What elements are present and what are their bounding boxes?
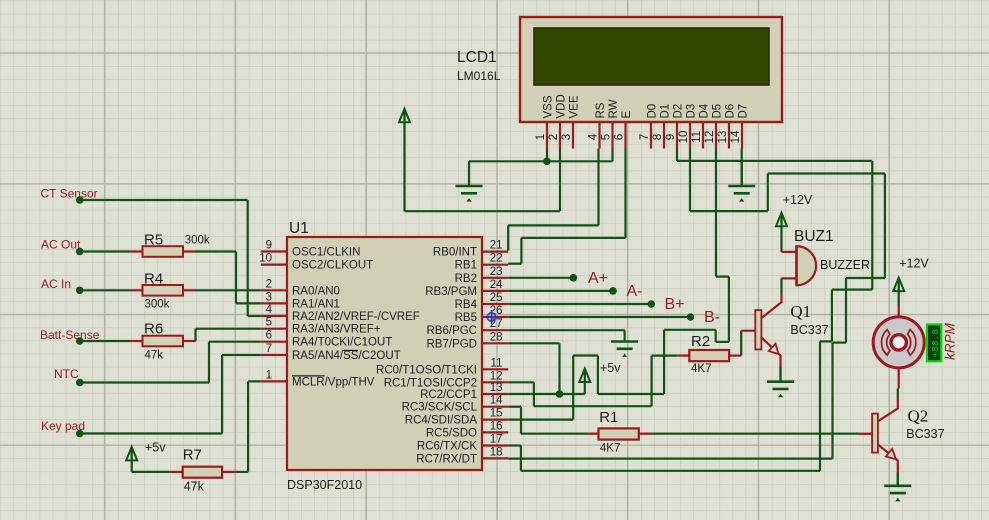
wire VDD drop [559,149,561,212]
motor brushes [881,330,915,356]
svg-text:11: 11 [691,131,703,143]
LCD pin 13 stub [728,122,730,149]
svg-text:RB0/INT: RB0/INT [433,247,477,259]
wire to pin22 [508,263,521,265]
resistor R1 right stub [639,433,652,435]
junction RB7/RC2 [556,390,564,398]
svg-text:23: 23 [490,266,503,278]
wire RS down to RB0 [507,225,509,250]
svg-text:RB4: RB4 [455,299,478,311]
wire R7 right [236,471,249,473]
wire D3 drop [689,149,691,212]
svg-text:RB7/PGD: RB7/PGD [427,338,478,350]
wire E horizontal [521,237,625,239]
svg-text:AC Out: AC Out [41,238,81,252]
ground at Q2 emitter [897,473,899,486]
LCD pin 11 stub [702,122,704,149]
microcontroller U1 DSP30F2010 body [287,237,482,470]
svg-text:5: 5 [600,134,612,140]
resistor R2 body [689,350,729,361]
junction A+ [570,274,578,282]
wire E drop [624,149,626,238]
U1 pin 14 stub (RC3/SCK/SCL) [482,406,508,408]
LCD pin 8 stub [663,122,665,149]
junction A- [609,287,617,295]
U1 pin 5 stub (RA3/AN3/VREF+) [261,328,287,330]
svg-text:RC5/SDO: RC5/SDO [426,427,477,439]
wire RB6 to ground [508,329,624,331]
Q1 emitter arrow [769,344,779,354]
svg-text:7: 7 [639,134,651,140]
wire D5 vertical 573 [572,356,574,420]
LCD pin 2 stub [559,122,561,149]
svg-text:+88.8: +88.8 [930,329,941,358]
wire RB2 to node A+ [508,277,573,279]
svg-text:8: 8 [652,134,664,140]
ground near LCD left [468,161,470,186]
resistor R4 left stub [130,289,143,291]
Q2 emitter [878,445,898,473]
svg-text:A-: A- [627,283,643,300]
wire D2 vertical 820 [819,341,821,470]
svg-text:13: 13 [717,131,729,144]
wire D5 jog left [716,341,729,343]
wire RS horizontal [508,224,598,226]
U1 SS overline [343,349,358,351]
origin marker at RB5 pin [485,310,499,324]
U1 pin 28 stub (RB7/PGD) [482,342,508,344]
junction B- [687,313,695,321]
svg-text:15: 15 [490,408,503,420]
U1 pin 3 stub (RA1/AN1) [261,302,287,304]
resistor R7 right stub [222,471,236,473]
wire RC1 long horizontal [534,405,652,407]
svg-text:R5: R5 [144,232,163,249]
wire R4 to pin2 [195,289,260,291]
LCD pin 1 stub [546,122,548,149]
power +12V arrow at buzzer [780,214,782,252]
resistor R7 body [183,467,222,478]
power +12V arrow at motor [898,279,900,306]
wire R6 to pin5 [196,328,261,330]
svg-text:47k: 47k [184,480,205,494]
svg-text:4: 4 [266,304,273,316]
LCD pin 9 stub [676,122,678,149]
svg-text:R4: R4 [144,271,163,288]
wire RS drop [597,149,599,226]
resistor R1 left stub [588,433,599,435]
svg-text:U1: U1 [289,220,309,237]
wire D2 horizontal [677,160,872,162]
wire RW drop [611,149,613,162]
wire VSS drop [546,149,548,162]
wire buzzer to Q1 collector [780,278,782,293]
U1 pin 21 stub (RB0/INT) [482,251,508,253]
LCD pin 4 stub [598,122,600,149]
wire D2 vertical right [871,161,873,290]
svg-text:CT Sensor: CT Sensor [41,187,98,201]
svg-text:LCD1: LCD1 [457,49,497,66]
wire D2 vertical 832 [831,290,833,342]
wire Q1 emitter to ground [779,367,781,382]
wire D3 horizontal 2 [768,172,885,174]
LCD pin 5 stub [611,122,613,149]
wire R1 to Q2 base [652,433,859,435]
svg-text:RA0/AN0: RA0/AN0 [292,285,340,297]
wire D5 vertical 728 [728,277,730,342]
resistor R2 left stub [677,355,689,357]
svg-text:R6: R6 [144,321,163,338]
power +5v arrow near R7 [131,448,133,472]
U1 pin 10 stub (OSC2/CLKOUT) [261,264,287,266]
U1 pin 15 stub (RC4/SDI/SDA) [482,419,508,421]
junction CT Sensor [76,196,84,204]
svg-text:A+: A+ [588,270,608,287]
buzzer bottom terminal [782,277,797,279]
svg-text:16: 16 [490,420,503,432]
wire RC1 from pin12 [508,381,534,383]
svg-text:5: 5 [266,317,272,329]
svg-text:RC0/T1OSO/T1CKI: RC0/T1OSO/T1CKI [376,364,477,376]
wire CT Sensor horizontal [80,199,248,201]
ground at RB6 [623,330,625,341]
wire D5 vertical 597 [597,356,599,395]
wire CT Sensor vertical to RA2 [247,200,249,316]
svg-text:14: 14 [730,130,742,143]
wire NTC vertical [208,342,210,383]
resistor R1 body [599,428,639,439]
svg-text:300k: 300k [145,299,170,311]
wire RC2 row [508,393,585,395]
svg-text:9: 9 [665,134,677,140]
wire CT Sensor to pin4 [248,315,261,317]
LCD pin 3 stub [572,122,574,149]
svg-text:RW: RW [608,99,620,118]
svg-text:D7: D7 [737,104,749,119]
wire RC1 vertical to R2 row [650,356,652,407]
svg-text:+5v: +5v [145,441,166,455]
meter kRPM display [927,324,941,361]
svg-text:13: 13 [490,382,503,394]
U1 pin 13 stub (RC2/CCP1) [482,393,508,395]
svg-text:11: 11 [491,357,503,369]
svg-text:RB5: RB5 [455,312,477,324]
wire D3 vertical up [767,174,769,212]
wire R6 vertical up [194,329,196,341]
wire RC6 long horizontal [521,470,820,472]
wire RB5 to node B- [508,316,690,318]
wire RB3 to node A- [508,290,613,292]
U1 pin 25 stub (RB4) [482,303,508,305]
U1 pin 11 stub (RC0/T1OSO/T1CKI) [482,368,508,370]
LCD LCD1 body [520,17,782,122]
wire D7 drop [741,149,743,187]
svg-text:D5: D5 [711,104,723,119]
svg-text:D4: D4 [698,103,710,118]
wire R7 vertical to MCLR [247,381,249,472]
svg-text:BUZ1: BUZ1 [794,228,834,245]
motor top pin [898,306,900,318]
wire +5v to R7 [132,471,170,473]
LCD LCD1 screen [534,28,769,85]
wire D5 vertical 715 [715,330,717,342]
transistor Q1 base plate [755,310,761,349]
wire RC4 row to pin15 [508,419,573,421]
LCD pin 7 stub [650,122,652,149]
wire ground bus horizontal [469,160,613,162]
wire to pin17 [508,444,521,446]
svg-text:12: 12 [490,370,503,382]
svg-text:RC4/SDI/SDA: RC4/SDI/SDA [405,415,478,427]
ground under D7 [741,161,743,186]
svg-text:RA2/AN2/VREF-/CVREF: RA2/AN2/VREF-/CVREF [292,311,420,323]
wire D5 drop [715,149,717,277]
LCD pin 12 stub [715,122,717,149]
wire D5 horizontal 329 [664,329,716,331]
U1 pin 6 stub (RA4/T0CKI/C1OUT) [261,341,287,343]
wire R5 vertical [235,252,237,304]
svg-text:RC1/T1OSI/CCP2: RC1/T1OSI/CCP2 [384,377,477,389]
svg-text:9: 9 [266,240,272,252]
svg-text:18: 18 [490,446,503,458]
svg-text:2: 2 [266,278,272,290]
wire D3 vertical 846 [845,278,847,343]
wire Key pad to pin7 [222,354,261,356]
Q2 base stub [859,433,873,435]
wire D5 horizontal 393 [598,393,664,395]
junction NTC [76,379,84,387]
svg-text:RC6/TX/CK: RC6/TX/CK [417,441,477,453]
svg-text:RB2: RB2 [455,273,477,285]
resistor R4 right stub [183,289,196,291]
svg-text:D2: D2 [672,104,684,119]
svg-text:4K7: 4K7 [600,443,620,455]
U1 pin 26 stub (RB5) [482,316,508,318]
wire D5 vertical 664 [663,330,665,394]
svg-text:14: 14 [490,395,503,407]
svg-text:RC3/SCK/SCL: RC3/SCK/SCL [402,402,478,414]
U1 pin 2 stub (RA0/AN0) [261,289,287,291]
svg-text:3: 3 [561,134,573,140]
wire RB7 vertical [558,343,560,394]
wire to R2 left [652,355,678,357]
svg-text:+5v: +5v [600,361,621,375]
svg-text:RS: RS [595,102,607,118]
motor bottom pin [898,368,900,389]
svg-text:4K7: 4K7 [691,363,711,375]
ground at Q1 emitter [779,367,781,382]
transistor Q2 base plate [872,414,878,453]
resistor R2 right stub [729,355,741,357]
junction VSS [543,158,551,166]
wire D3 vertical 832 [831,343,833,459]
wire AC In to R4 [80,289,130,291]
wire Q2 emitter to ground [897,473,899,486]
svg-text:BC337: BC337 [906,427,944,441]
svg-text:E: E [621,111,633,119]
wire D5 horizontal 355 [573,354,598,356]
junction B+ [648,300,656,308]
svg-text:Q2: Q2 [908,406,929,425]
U1 pin 24 stub (RB3/PGM) [482,290,508,292]
wire D3 vertical right [884,174,886,279]
Q1 emitter [761,337,780,366]
svg-text:2: 2 [548,134,560,140]
wire RB4 to node B+ [508,303,651,305]
svg-text:NTC: NTC [54,367,79,381]
svg-text:R7: R7 [183,447,202,464]
wire NTC to pin6 [209,341,261,343]
wire to pin1 [248,380,261,382]
svg-text:AC In: AC In [41,277,71,291]
U1 pin 12 stub (RC1/T1OSI/CCP2) [482,381,508,383]
svg-text:RB6/PGC: RB6/PGC [427,325,478,337]
svg-text:RA5/AN4/SS/C2OUT: RA5/AN4/SS/C2OUT [292,350,401,362]
svg-text:+12V: +12V [783,193,813,207]
svg-text:RB3/PGM: RB3/PGM [425,286,477,298]
motor hub [891,335,906,350]
wire RC6 vertical [520,446,522,471]
svg-text:7: 7 [266,343,272,355]
svg-text:B+: B+ [665,296,685,313]
svg-text:DSP30F2010: DSP30F2010 [287,478,362,492]
svg-text:+12V: +12V [899,257,929,271]
resistor R6 left stub [130,340,143,342]
wire R5 right [195,250,236,252]
svg-text:12: 12 [704,131,716,144]
wire VDD horizontal [405,210,561,212]
svg-text:MCLR/Vpp/THV: MCLR/Vpp/THV [292,376,375,388]
wire Batt-Sense to R6 [80,340,130,342]
wire RC7 long horizontal to pin18 [508,458,832,460]
junction AC Out [76,248,84,256]
wire AC Out to R5 [80,250,130,252]
U1 pin 17 stub (RC6/TX/CK) [482,444,508,446]
resistor R6 right stub [183,340,196,342]
svg-text:VDD: VDD [555,94,567,118]
U1 pin 4 stub (RA2/AN2/VREF-/CVREF) [261,315,287,317]
buzzer BUZ1 body [797,246,817,285]
svg-text:kRPM: kRPM [943,322,958,360]
resistor R5 right stub [183,250,196,252]
svg-text:D1: D1 [659,104,671,119]
svg-text:D3: D3 [685,104,697,119]
U1 pin 27 stub (RB6/PGC) [482,329,508,331]
resistor R7 left stub [169,471,183,473]
svg-text:10: 10 [259,253,272,265]
U1 pin 9 stub (OSC1/CLKIN) [261,250,287,252]
svg-text:OSC1/CLKIN: OSC1/CLKIN [292,247,360,259]
wire RC3 to R1 [521,433,588,435]
power +5v arrow mid [584,370,586,395]
svg-text:6: 6 [613,134,625,140]
svg-text:25: 25 [490,292,503,304]
resistor R5 left stub [130,250,143,252]
svg-text:28: 28 [490,331,503,343]
wire D3 horizontal [690,210,768,212]
wire motor to Q2 collector [897,389,899,398]
U1 pin 1 stub (MCLR/Vpp/THV) [261,380,287,382]
junction AC In [76,287,84,295]
resistor R6 body [143,336,184,347]
wire D3 jog left 2 [833,342,847,344]
svg-text:D6: D6 [724,104,736,119]
U1 pin 16 stub (RC5/SDO) [482,431,508,433]
svg-text:3: 3 [266,291,272,303]
svg-text:RC7/RX/DT: RC7/RX/DT [416,453,477,465]
junction Batt-Sense [76,337,84,345]
svg-text:B-: B- [704,309,720,326]
resistor R5 body [143,246,184,257]
motor body [873,317,924,368]
svg-text:RA1/AN1: RA1/AN1 [292,298,340,310]
svg-text:10: 10 [678,131,690,144]
Q2 collector [878,397,898,421]
wire D2 jog left [832,289,872,291]
svg-text:1: 1 [266,369,272,381]
svg-text:300k: 300k [185,235,210,247]
LCD pin 14 stub [741,122,743,149]
svg-text:21: 21 [490,240,503,252]
svg-text:Q1: Q1 [790,302,811,321]
Q1 base stub [741,330,755,332]
junction Key pad [76,430,84,438]
svg-text:RB1: RB1 [455,260,477,272]
wire E down [520,238,522,264]
wire Key pad vertical [221,355,223,434]
wire D5 jog right [716,276,729,278]
wire RC1 vertical [533,382,535,406]
wire D3 jog left [846,277,885,279]
svg-text:17: 17 [490,434,503,446]
power +5v arrow top [403,110,405,211]
Q1 collector [761,293,781,318]
wire R6 right [194,340,196,342]
U1 pin 18 stub (RC7/RX/DT) [482,457,508,459]
Q2 emitter arrow [886,449,896,459]
buzzer top terminal [782,251,797,253]
U1 MCLR overline [292,375,325,377]
wire RC3 from pin14 [508,406,521,408]
wire R5 to pin3 [236,302,261,304]
svg-text:RA4/T0CKI/C1OUT: RA4/T0CKI/C1OUT [292,337,392,349]
U1 pin 22 stub (RB1) [482,264,508,266]
svg-text:24: 24 [490,279,503,291]
svg-text:BC337: BC337 [790,323,828,337]
svg-text:D0: D0 [646,104,658,119]
wire Key pad horizontal [80,432,222,434]
svg-text:RC2/CCP1: RC2/CCP1 [420,389,477,401]
svg-text:OSC2/CLKOUT: OSC2/CLKOUT [292,260,373,272]
LCD pin 6 stub [624,122,626,149]
U1 pin 7 stub (RA5/AN4/SS/C2OUT) [261,354,287,356]
svg-text:47k: 47k [145,350,164,362]
wire RB7 horizontal [508,342,559,344]
svg-text:VSS: VSS [542,95,554,118]
svg-text:LM016L: LM016L [457,69,501,83]
svg-text:6: 6 [266,330,272,342]
U1 pin 23 stub (RB2) [482,277,508,279]
wire D2 jog left 2 [820,340,832,342]
svg-text:R1: R1 [599,409,618,426]
svg-text:VEE: VEE [568,95,580,118]
svg-text:R2: R2 [691,333,710,350]
wire NTC horizontal [80,381,209,383]
svg-text:1: 1 [535,134,547,140]
wire RC3 vertical [520,407,522,434]
svg-text:4: 4 [587,133,599,140]
svg-text:BUZZER: BUZZER [820,258,870,272]
